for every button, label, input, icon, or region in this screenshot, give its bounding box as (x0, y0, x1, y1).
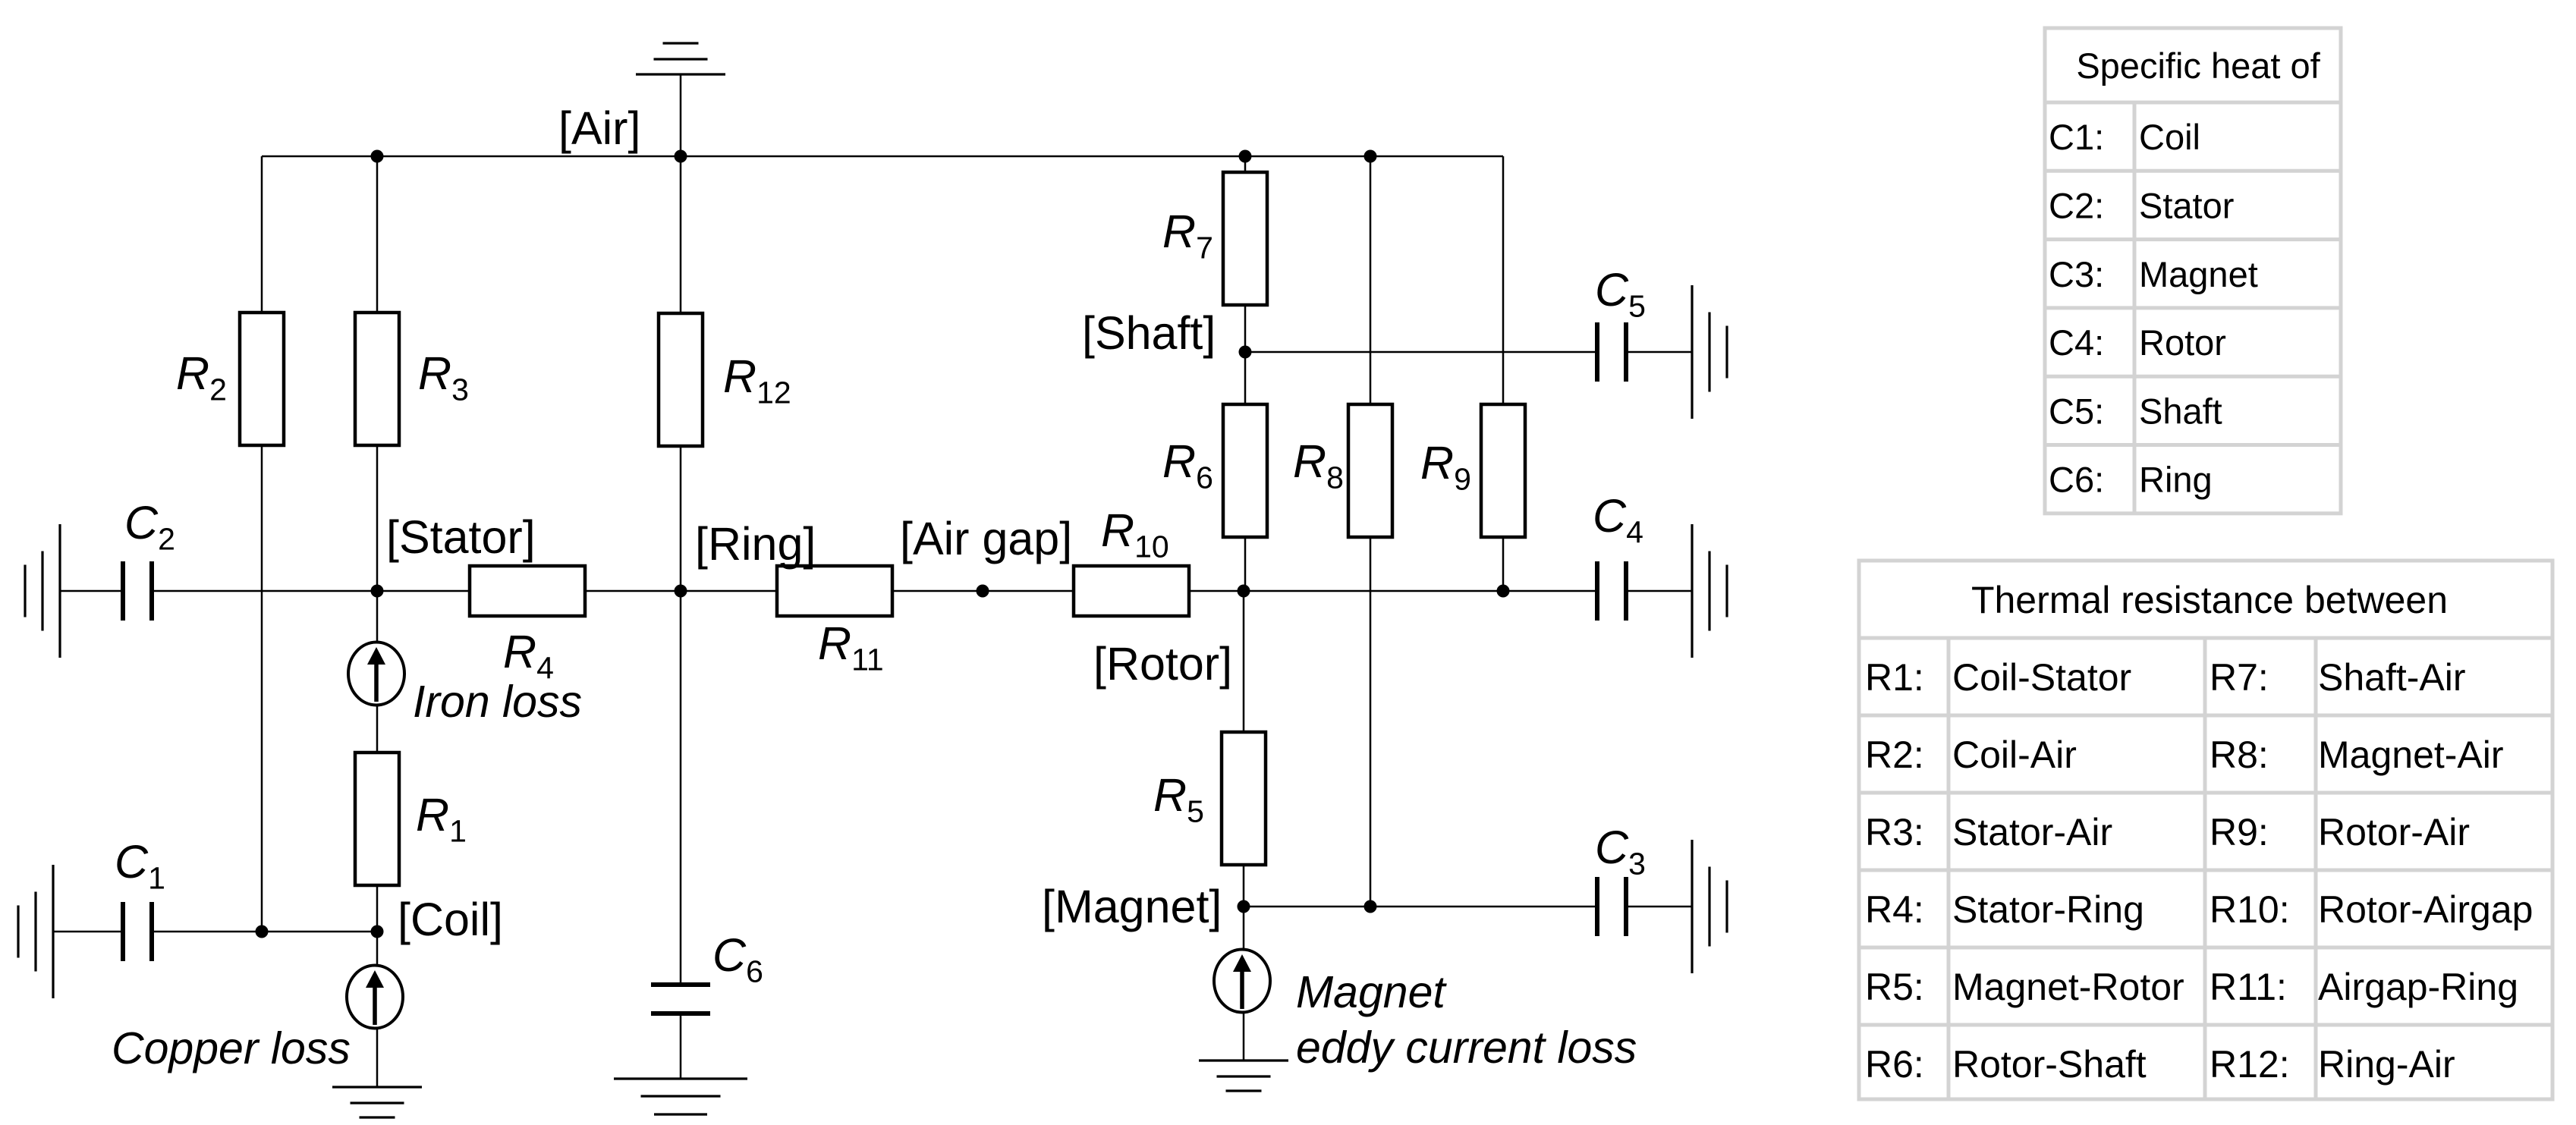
svg-text:Magnet: Magnet (2139, 254, 2258, 294)
svg-text:Magnet-Air: Magnet-Air (2318, 734, 2504, 776)
svg-text:Copper loss: Copper loss (112, 1023, 351, 1073)
svg-text:[Shaft]: [Shaft] (1082, 307, 1216, 359)
svg-text:Iron loss: Iron loss (413, 677, 582, 727)
svg-text:Ring: Ring (2139, 460, 2213, 500)
svg-text:C1:: C1: (2049, 117, 2104, 157)
svg-text:R7:: R7: (2210, 656, 2269, 699)
svg-text:[Air]: [Air] (558, 102, 640, 154)
svg-text:C2:: C2: (2049, 185, 2104, 225)
svg-text:R6:: R6: (1865, 1043, 1924, 1086)
svg-text:R12:: R12: (2210, 1043, 2290, 1086)
svg-text:Magnet-Rotor: Magnet-Rotor (1952, 966, 2184, 1008)
svg-text:R10:: R10: (2210, 888, 2290, 931)
svg-text:C4:: C4: (2049, 322, 2104, 363)
svg-text:[Rotor]: [Rotor] (1093, 638, 1232, 690)
svg-text:Rotor-Air: Rotor-Air (2318, 811, 2470, 853)
svg-text:Coil: Coil (2139, 117, 2200, 157)
svg-text:R9:: R9: (2210, 811, 2269, 853)
svg-text:Shaft: Shaft (2139, 391, 2222, 431)
svg-text:C5:: C5: (2049, 391, 2104, 431)
svg-text:Rotor: Rotor (2139, 322, 2226, 363)
svg-text:R8:: R8: (2210, 734, 2269, 776)
svg-text:Stator-Air: Stator-Air (1952, 811, 2112, 853)
svg-text:Airgap-Ring: Airgap-Ring (2318, 966, 2518, 1008)
svg-text:Ring-Air: Ring-Air (2318, 1043, 2455, 1086)
svg-text:[Magnet]: [Magnet] (1042, 881, 1222, 932)
svg-text:Stator: Stator (2139, 185, 2234, 225)
svg-text:R5:: R5: (1865, 966, 1924, 1008)
svg-text:C6:: C6: (2049, 460, 2104, 500)
svg-text:Coil-Stator: Coil-Stator (1952, 656, 2131, 699)
svg-text:R3:: R3: (1865, 811, 1924, 853)
svg-text:Rotor-Airgap: Rotor-Airgap (2318, 888, 2533, 931)
svg-text:Magnet: Magnet (1296, 967, 1447, 1017)
svg-text:[Stator]: [Stator] (386, 511, 536, 563)
svg-text:R4:: R4: (1865, 888, 1924, 931)
svg-text:Specific heat of: Specific heat of (2076, 46, 2320, 86)
svg-text:Rotor-Shaft: Rotor-Shaft (1952, 1043, 2147, 1086)
svg-text:C3:: C3: (2049, 254, 2104, 294)
svg-text:Stator-Ring: Stator-Ring (1952, 888, 2144, 931)
svg-text:R11:: R11: (2210, 966, 2287, 1008)
svg-text:Thermal resistance between: Thermal resistance between (1971, 579, 2448, 621)
svg-text:R1:: R1: (1865, 656, 1924, 699)
svg-text:[Ring]: [Ring] (695, 518, 816, 570)
svg-text:Coil-Air: Coil-Air (1952, 734, 2077, 776)
svg-text:[Coil]: [Coil] (398, 894, 503, 945)
svg-text:[Air gap]: [Air gap] (900, 513, 1072, 564)
svg-text:Shaft-Air: Shaft-Air (2318, 656, 2466, 699)
svg-text:eddy current loss: eddy current loss (1296, 1023, 1637, 1073)
svg-text:R2:: R2: (1865, 734, 1924, 776)
